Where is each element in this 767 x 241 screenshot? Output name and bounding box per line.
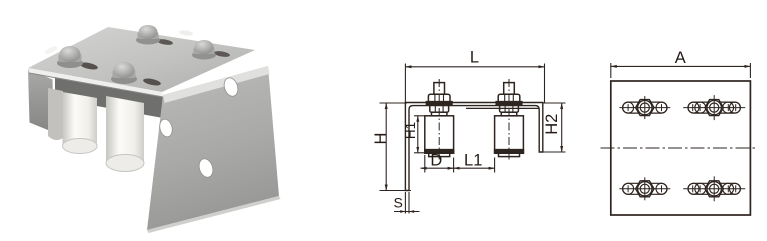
right bolt assembly bbox=[496, 83, 522, 116]
oval hole middle-left bbox=[158, 118, 174, 138]
dome nut front-right bbox=[111, 62, 137, 84]
top view technical drawing bbox=[601, 63, 758, 215]
top plate front edge strip bbox=[28, 68, 163, 97]
oval hole bottom bbox=[197, 157, 215, 179]
plate slot dark 2 bbox=[143, 77, 162, 87]
front view technical drawing bbox=[380, 64, 566, 214]
svg-text:H: H bbox=[372, 133, 390, 145]
top plate bbox=[28, 27, 255, 92]
plate slot light 1 bbox=[44, 45, 59, 56]
left roller bbox=[425, 116, 454, 157]
rear roller sliver bbox=[48, 88, 63, 140]
dome nut back-left bbox=[136, 25, 160, 45]
svg-text:H2: H2 bbox=[543, 114, 561, 135]
dimension S bbox=[394, 192, 420, 214]
horizontal centre line bbox=[601, 147, 758, 149]
under-plate shadow band bbox=[55, 77, 163, 118]
left bolt assembly bbox=[426, 83, 452, 116]
plate slot dark 4 bbox=[214, 50, 231, 58]
fastener upper-left bbox=[619, 96, 670, 119]
dimension A bbox=[611, 63, 751, 78]
dimension H1 bbox=[414, 116, 425, 153]
left folded flap bbox=[28, 69, 54, 133]
fastener upper-right bbox=[683, 95, 745, 120]
svg-text:S: S bbox=[394, 195, 403, 211]
dimension H2 bbox=[544, 103, 566, 152]
left centerline bbox=[438, 79, 440, 161]
oval hole top bbox=[222, 76, 240, 98]
plate slot light 2 bbox=[179, 30, 194, 37]
svg-text:H1: H1 bbox=[403, 122, 418, 139]
dome nut back-right bbox=[192, 40, 216, 60]
dimension D bbox=[421, 155, 454, 173]
bracket sheet profile bbox=[405, 103, 542, 191]
plate outline bbox=[611, 81, 751, 215]
fastener lower-right bbox=[683, 176, 745, 201]
product photo: gate guide bracket bbox=[28, 25, 281, 233]
front-middle nylon roller bbox=[106, 96, 144, 172]
front-left nylon roller bbox=[63, 92, 98, 154]
fastener lower-left bbox=[619, 177, 670, 200]
svg-text:D: D bbox=[430, 152, 442, 170]
right face of bracket bbox=[147, 66, 279, 230]
svg-text:L1: L1 bbox=[464, 152, 482, 170]
dimension L bbox=[405, 64, 544, 104]
right roller bbox=[495, 116, 524, 157]
dimension H bbox=[380, 103, 412, 191]
plate slot dark 3 bbox=[157, 38, 174, 46]
plate slot dark 1 bbox=[80, 61, 99, 71]
svg-text:L: L bbox=[470, 49, 479, 67]
dimension L1 bbox=[454, 158, 495, 173]
right face bottom edge highlight bbox=[147, 196, 281, 233]
plate step line bbox=[466, 107, 539, 109]
right centerline bbox=[508, 79, 510, 161]
right face top fold highlight bbox=[163, 66, 270, 103]
dome nut front-left bbox=[57, 46, 83, 68]
svg-text:A: A bbox=[675, 49, 686, 67]
